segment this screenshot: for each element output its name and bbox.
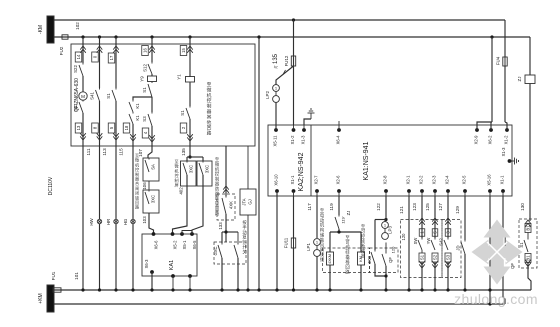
note thyristor <box>361 224 366 259</box>
svg-text:ZJ: ZJ <box>517 77 522 82</box>
note to operating circuit <box>207 82 212 137</box>
svg-text:KA2;NS-942: KA2;NS-942 <box>298 152 305 191</box>
label 133 <box>218 222 223 230</box>
svg-text:X6-10: X6-10 <box>274 174 279 186</box>
wire 133 <box>225 214 227 242</box>
relay KA1 box <box>142 234 197 276</box>
note machine-ctrl col <box>135 153 139 210</box>
wire split to 3XC pair <box>187 157 203 161</box>
terminal label 0 <box>92 52 99 62</box>
label JTA <box>242 198 247 205</box>
wire col2 lower in box <box>97 101 103 146</box>
label 103 <box>142 216 147 224</box>
svg-text:X2-1: X2-1 <box>406 175 411 185</box>
svg-text:X5-1: X5-1 <box>182 240 187 250</box>
contact K1 b <box>129 112 140 124</box>
pin X5-1 <box>180 232 187 249</box>
svg-text:DC110V: DC110V <box>48 176 54 195</box>
node 135 split <box>188 155 191 158</box>
svg-text:YW: YW <box>426 238 431 245</box>
wire bottom bus line 2 <box>54 303 505 305</box>
svg-text:X1-3: X1-3 <box>501 147 506 157</box>
svg-text:111: 111 <box>86 148 91 155</box>
wire 129 low <box>463 254 466 292</box>
wire LP1 to +bus <box>315 257 318 292</box>
wire FU3 low <box>503 247 505 304</box>
svg-text:101: 101 <box>74 272 79 280</box>
contact 3XC left <box>183 161 194 175</box>
switch S1 col3 <box>106 88 116 101</box>
svg-text:LP3: LP3 <box>388 226 393 234</box>
pin KA1 bottom a <box>171 274 175 292</box>
terminal label 2 <box>180 123 187 133</box>
contact QF <box>382 243 393 267</box>
svg-text:Y9: Y9 <box>140 76 145 82</box>
svg-text:402: 402 <box>179 187 184 195</box>
svg-text:4XC: 4XC <box>367 256 372 264</box>
svg-text:3XC: 3XC <box>205 165 210 173</box>
wire 129 <box>455 196 465 240</box>
wire bottom bus line 1 (net 101) <box>54 289 531 291</box>
svg-text:S1: S1 <box>106 93 111 99</box>
relay box 3XC left <box>181 161 197 186</box>
label 135 at FU12 <box>273 53 279 68</box>
svg-text:HR: HR <box>106 219 111 225</box>
pin X2-2 <box>419 175 424 196</box>
svg-text:其: 其 <box>207 114 212 120</box>
fuse FU11 <box>284 237 296 249</box>
pin X2-7 <box>314 175 319 196</box>
circuit-breaker cabinet box QF:ZN65A-630 <box>71 44 255 146</box>
wire 117 <box>307 196 317 238</box>
label 106 <box>142 182 147 190</box>
wire QF aux to bus <box>528 263 531 291</box>
wire right feed 2 drop <box>491 37 493 122</box>
svg-text:FU12: FU12 <box>284 55 289 66</box>
wire coil header <box>330 229 361 252</box>
svg-text:路: 路 <box>207 130 212 137</box>
svg-text:135: 135 <box>273 53 279 64</box>
coil 4XKM <box>327 252 334 265</box>
negative bus bar -KM <box>38 16 54 43</box>
svg-text:S2: S2 <box>433 254 438 260</box>
fuse FU12 <box>284 55 296 67</box>
wire col1 lower in box <box>80 113 86 146</box>
relay ZJ <box>517 75 535 84</box>
svg-text:Y1: Y1 <box>177 74 182 80</box>
switch S41 <box>90 88 100 101</box>
note press-reset <box>242 219 247 255</box>
svg-text:102: 102 <box>75 22 80 30</box>
contact SW <box>413 238 422 250</box>
svg-text:103: 103 <box>142 216 147 224</box>
svg-text:120: 120 <box>391 246 396 253</box>
wire 119 <box>329 196 339 215</box>
relay box 3XC col4 <box>143 181 159 213</box>
wire X5-16 drop <box>488 196 491 306</box>
wire col2 upper <box>97 37 103 88</box>
svg-text:X2-9: X2-9 <box>474 135 479 145</box>
wire coils to +bus <box>328 265 362 292</box>
svg-text:14: 14 <box>76 54 81 59</box>
svg-text:他: 他 <box>207 119 212 126</box>
svg-text:QF: QF <box>388 257 393 263</box>
wire right feed 1 <box>504 20 506 57</box>
lamp LP2 <box>265 66 294 102</box>
wire 125 <box>425 196 438 238</box>
svg-text:S1: S1 <box>519 242 524 248</box>
wire col3 to +bus <box>114 224 117 292</box>
svg-text:121: 121 <box>399 206 404 214</box>
wire KA1 X6-3 to +bus <box>150 272 153 292</box>
svg-text:-KM: -KM <box>38 25 44 34</box>
pin X5-11 <box>273 125 278 146</box>
switch S1 aux <box>519 233 528 253</box>
svg-text:16: 16 <box>143 48 148 53</box>
terminal label SW low <box>419 253 425 262</box>
switch S12 <box>143 62 153 74</box>
svg-text:路: 路 <box>135 204 139 210</box>
wire top bus line 2 (net 102) <box>54 36 530 38</box>
svg-text:S12: S12 <box>143 64 148 72</box>
svg-text:器: 器 <box>207 109 212 115</box>
solenoid Y9 <box>140 74 157 82</box>
svg-text:QF: QF <box>510 263 515 269</box>
dashed group coils <box>323 248 370 273</box>
wire LP2 to X5-11 <box>275 103 277 131</box>
wire FU4 to X1-2 <box>505 66 507 130</box>
svg-text:123: 123 <box>412 203 417 211</box>
relay ZJ feed <box>529 37 531 75</box>
terminal label 18 <box>123 123 130 133</box>
contact GXC b <box>234 232 238 258</box>
switch S1 col4 <box>142 82 152 98</box>
svg-text:JTA: JTA <box>242 198 247 205</box>
lamp HR <box>106 219 118 225</box>
fuse FU1 <box>51 271 61 292</box>
wire 135 below box <box>181 146 190 157</box>
wire col4 upper <box>149 37 155 62</box>
wire FU12 drop <box>293 20 295 125</box>
svg-text:113: 113 <box>102 148 107 156</box>
wire col5 lower in box <box>187 119 193 146</box>
note breaker circuit <box>345 235 350 275</box>
contact GXC <box>213 243 222 258</box>
svg-text:X1-2: X1-2 <box>504 135 509 145</box>
pin X2-8 <box>383 175 388 196</box>
lamp LP3 <box>382 222 396 254</box>
svg-text:FU2: FU2 <box>59 46 64 55</box>
terminal label 15 <box>180 46 187 56</box>
svg-text:115: 115 <box>119 148 124 156</box>
contact S42 <box>439 238 449 250</box>
wire 130 drop <box>520 84 530 222</box>
pin X2-3 <box>432 175 437 196</box>
svg-text:组: 组 <box>320 256 325 262</box>
svg-text:KA1: KA1 <box>169 260 175 270</box>
pin X2-6 <box>336 175 341 196</box>
svg-text:13: 13 <box>76 125 81 130</box>
ground at X1-3 <box>304 109 315 125</box>
wire 121 <box>399 196 411 292</box>
wire K1 branch end <box>130 124 136 145</box>
svg-text:HG: HG <box>123 218 128 225</box>
svg-text:130: 130 <box>520 203 525 211</box>
label QF aux <box>510 263 515 269</box>
wire 115 <box>116 146 124 219</box>
node col5 on bus <box>188 35 191 38</box>
svg-text:X6-2: X6-2 <box>488 135 493 145</box>
motor M <box>79 76 87 100</box>
pin X1-2 top <box>290 125 295 144</box>
wire X2-9 X6-2 header <box>477 122 492 130</box>
note ctrl-screen col <box>174 159 178 188</box>
svg-text:X5-16: X5-16 <box>487 174 492 186</box>
contact K1 a <box>129 100 140 112</box>
dashed group 4XK <box>217 194 235 220</box>
contact SA <box>145 158 156 172</box>
svg-text:S21: S21 <box>73 103 78 111</box>
label 402 <box>179 187 184 195</box>
svg-text:127: 127 <box>438 203 443 211</box>
wire QF 4XC join <box>375 264 388 292</box>
svg-text:X2-7: X2-7 <box>314 175 319 185</box>
terminal label 5 <box>108 123 115 133</box>
svg-text:X2-3: X2-3 <box>432 175 437 185</box>
svg-text:+KM: +KM <box>38 293 44 303</box>
wire top bus line 1 (net 102 upper) <box>54 19 505 21</box>
terminal label 16 <box>142 46 149 56</box>
pin X1-3 right <box>501 147 511 163</box>
svg-text:X2-8: X2-8 <box>383 175 388 185</box>
pin X6-3 <box>144 259 154 274</box>
svg-text:微: 微 <box>207 86 212 93</box>
svg-text:122: 122 <box>376 203 381 211</box>
pin X1-3 top <box>301 125 306 144</box>
lamp HG <box>123 218 135 225</box>
svg-text:K1: K1 <box>135 115 140 121</box>
note sys-ctrl mid <box>215 157 220 217</box>
wire 123 <box>412 196 425 238</box>
wire 125 low <box>432 261 438 291</box>
svg-text:控: 控 <box>207 97 212 104</box>
switch S22 <box>73 63 83 76</box>
pin X5-2 <box>171 232 178 249</box>
relay box 3XC right <box>197 161 212 186</box>
wire to KA1 X6-6 <box>149 213 154 234</box>
contact ZJ <box>335 211 351 229</box>
terminal label B1 bottom <box>525 254 531 267</box>
wire col4 lower in box <box>149 126 155 146</box>
wire GXC join <box>222 230 238 243</box>
svg-text:X2-4: X2-4 <box>445 175 450 185</box>
svg-text:ZJ: ZJ <box>346 211 351 216</box>
branch wire to K1 <box>133 97 152 100</box>
svg-text:120: 120 <box>401 233 406 241</box>
dashed group SW YW <box>401 220 443 278</box>
svg-text:S1: S1 <box>142 87 147 93</box>
svg-text:S3: S3 <box>142 116 147 122</box>
node col4 on bus <box>150 35 153 38</box>
note fan winding <box>320 208 325 262</box>
wire 134 to +bus <box>131 224 134 292</box>
svg-text:S42: S42 <box>439 238 444 246</box>
svg-text:X6-6: X6-6 <box>154 240 159 250</box>
node 122 split <box>375 196 388 250</box>
wire col5 upper <box>187 37 193 77</box>
terminal label B1 top <box>525 220 531 233</box>
pin X2-1 <box>406 175 411 196</box>
wire 127 <box>438 196 451 238</box>
switch S21 <box>73 100 83 113</box>
svg-text:129: 129 <box>455 206 460 214</box>
pin KA1 bottom b <box>188 274 192 292</box>
svg-text:FU11: FU11 <box>284 237 289 248</box>
wire 259 column <box>257 35 260 291</box>
terminal label 17 <box>108 53 115 63</box>
contact JD <box>456 240 466 254</box>
fuse FU4 <box>496 56 508 67</box>
svg-text:119': 119' <box>341 216 346 223</box>
wire col3 upper <box>113 37 119 88</box>
wire FU11 to +bus <box>292 248 295 292</box>
relay box SA <box>143 158 159 181</box>
pin X2-9 <box>474 125 479 144</box>
wire col2 to +bus <box>98 224 101 292</box>
svg-text:X1-2: X1-2 <box>290 135 295 145</box>
svg-text:X5-2: X5-2 <box>173 240 178 250</box>
svg-text:X2-5: X2-5 <box>462 175 467 185</box>
wire col3 lower in box <box>113 101 119 146</box>
svg-text:zhulong.com: zhulong.com <box>454 291 538 307</box>
svg-text:X6-5: X6-5 <box>192 240 197 250</box>
svg-text:LP1: LP1 <box>306 243 311 251</box>
wire 107 <box>138 146 152 158</box>
lamp HW <box>89 217 102 225</box>
dashed group QF aux <box>519 219 537 268</box>
fuse FU2 <box>59 35 68 56</box>
svg-text:关: 关 <box>242 248 247 255</box>
svg-text:FU1: FU1 <box>51 271 56 280</box>
svg-text:S1: S1 <box>180 110 185 116</box>
svg-text:18: 18 <box>124 125 129 130</box>
svg-text:KA1:NS-941: KA1:NS-941 <box>363 141 370 180</box>
svg-text:X6-3: X6-3 <box>144 259 149 269</box>
pin X6-10 <box>274 174 279 196</box>
lamp LP1 <box>306 239 320 257</box>
label GJ <box>248 199 253 204</box>
contact 3XC right <box>199 161 210 175</box>
terminal label 14 <box>75 52 82 62</box>
svg-text:K1: K1 <box>135 103 140 109</box>
svg-text:路: 路 <box>215 210 220 217</box>
svg-text:X2-6: X2-6 <box>336 175 341 185</box>
svg-text:机: 机 <box>207 92 212 99</box>
svg-text:SA: SA <box>151 164 156 170</box>
svg-text:133: 133 <box>218 222 223 230</box>
svg-text:S1: S1 <box>420 254 425 260</box>
watermark zhulong logo and text <box>454 220 538 308</box>
svg-text:X1-3: X1-3 <box>301 135 306 145</box>
svg-text:119: 119 <box>329 203 334 211</box>
svg-text:X6-4: X6-4 <box>336 135 341 145</box>
terminal label S42 low <box>445 253 451 262</box>
wire col1 upper <box>80 37 86 63</box>
svg-text:106: 106 <box>142 182 147 190</box>
svg-text:GXC: GXC <box>213 246 218 255</box>
wire X1-1 drop <box>293 196 295 238</box>
contact YW <box>426 238 435 250</box>
pin X6-2 <box>488 125 493 144</box>
svg-text:4XK: 4XK <box>229 201 234 209</box>
label DC110V <box>48 176 54 195</box>
contact 4XC <box>367 250 375 264</box>
svg-text:125: 125 <box>425 203 430 211</box>
wire 122 <box>376 203 381 211</box>
label 120 <box>401 233 406 241</box>
svg-text:LP2: LP2 <box>265 91 270 99</box>
jumper X5-1 to X6-5 <box>182 231 192 235</box>
wire 134 below box <box>132 145 134 219</box>
relay group JTA GJ box <box>240 189 256 215</box>
node col2 on bus <box>98 35 101 38</box>
wire 111 <box>81 146 91 292</box>
contact 3XC col4 <box>145 190 156 204</box>
svg-text:117: 117 <box>307 203 312 211</box>
label 102 <box>75 22 80 30</box>
fuse FU3 <box>493 236 505 248</box>
svg-text:15: 15 <box>181 48 186 53</box>
wire 4XK column <box>223 146 229 196</box>
pin X1-1 bottom-right <box>500 175 505 196</box>
pin X2-4 <box>445 175 450 196</box>
wire 3XC left to KA1 X5-2 <box>173 175 188 234</box>
node right feed 2 <box>490 35 493 38</box>
node col3 on bus <box>114 35 117 38</box>
ground at box right <box>510 158 519 165</box>
svg-text:S3: S3 <box>446 254 451 260</box>
node col1 on bus <box>81 35 84 38</box>
positive bus bar +KM <box>38 285 54 312</box>
node FU12 on top bus <box>292 18 295 21</box>
terminal label 13 <box>75 123 82 133</box>
svg-text:FU4: FU4 <box>496 56 501 65</box>
wire GXC to +bus <box>220 258 239 292</box>
svg-text:17: 17 <box>109 55 114 60</box>
switch S3 <box>142 97 152 126</box>
svg-text:回: 回 <box>207 125 212 131</box>
svg-text:GJ: GJ <box>248 199 253 204</box>
pin X2-5 <box>462 175 467 196</box>
wire JTA column <box>246 146 249 292</box>
pin X1-2 right <box>504 125 509 144</box>
pin X6-6 <box>152 232 159 249</box>
switch S1 col5 <box>180 83 190 120</box>
pin X6-5 <box>190 232 197 249</box>
svg-text:3XC: 3XC <box>151 195 156 203</box>
svg-text:JD: JD <box>456 245 461 250</box>
svg-text:135: 135 <box>181 148 186 156</box>
svg-text:4XKM: 4XKM <box>328 254 332 264</box>
svg-text:M: M <box>81 94 85 99</box>
label 101 <box>74 272 79 280</box>
svg-text:3XC: 3XC <box>189 165 194 173</box>
svg-text:S22: S22 <box>73 65 78 73</box>
terminal label YW low <box>432 253 438 262</box>
svg-text:X2-2: X2-2 <box>419 175 424 185</box>
pin X5-16 <box>487 174 492 196</box>
pin X1-1 bottom-left <box>290 175 295 196</box>
